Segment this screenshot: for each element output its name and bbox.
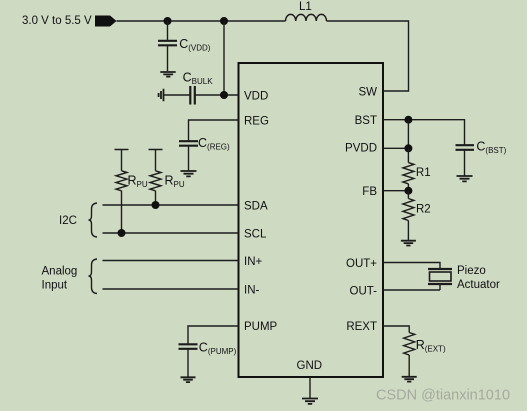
- svg-text:I2C: I2C: [59, 215, 77, 227]
- brace for I2C: [89, 203, 98, 237]
- piezo actuator: [428, 265, 500, 291]
- svg-text:Piezo: Piezo: [457, 265, 486, 277]
- svg-text:L1: L1: [299, 1, 312, 13]
- svg-text:VDD: VDD: [244, 91, 268, 103]
- wire: rail from L1 to SW drop: [327, 21, 409, 91]
- wire: IN- line: [103, 288, 239, 290]
- wire: BST line to C(BST): [383, 120, 465, 145]
- wire: SCL line: [103, 232, 239, 234]
- capacitor C(BST): [456, 140, 507, 176]
- svg-text:REXT: REXT: [346, 321, 377, 333]
- wire: SDA line: [103, 204, 239, 206]
- svg-text:IN+: IN+: [244, 256, 263, 268]
- svg-text:SW: SW: [358, 87, 377, 99]
- svg-text:R1: R1: [416, 167, 431, 179]
- node: rail / VDD branch junction: [220, 17, 228, 25]
- capacitor C(BULK): [164, 70, 239, 104]
- svg-text:REG: REG: [244, 116, 269, 128]
- svg-text:Input: Input: [42, 279, 68, 291]
- wire: piezo to OUT-: [383, 284, 440, 290]
- svg-text:PUMP: PUMP: [244, 321, 278, 333]
- node: FB junction: [404, 187, 412, 195]
- supply source terminal 3.0V-5.5V: [22, 15, 117, 27]
- ground under C(REG): [181, 171, 197, 176]
- svg-text:Actuator: Actuator: [457, 279, 500, 291]
- node: BST junction: [404, 116, 412, 124]
- svg-text:CSDN @tianxin1010: CSDN @tianxin1010: [376, 388, 510, 404]
- wire: IN+ line: [103, 260, 239, 262]
- node: rail / C(VDD) junction: [164, 17, 172, 25]
- wire: REXT pin to R(EXT): [383, 326, 409, 333]
- resistor RPU (SDA pull-up): [149, 150, 185, 206]
- svg-text:PVDD: PVDD: [345, 142, 377, 154]
- Analog Input label: [42, 265, 78, 291]
- svg-text:OUT-: OUT-: [350, 286, 378, 298]
- node: SDA / pull-up junction: [152, 201, 160, 209]
- inductor L1: [286, 1, 327, 21]
- ground under C(BST): [457, 176, 473, 181]
- wire: BST to PVDD: [407, 120, 409, 149]
- capacitor C(VDD): [158, 21, 211, 71]
- ground under R2: [401, 241, 416, 246]
- svg-text:3.0 V to 5.5 V: 3.0 V to 5.5 V: [22, 15, 92, 27]
- IC U1 body: [239, 63, 384, 377]
- capacitor C(REG): [179, 136, 230, 171]
- ground (sideways) at C(BULK): [159, 89, 164, 102]
- node: C(BULK)/VDD junction: [220, 91, 228, 99]
- brace for Analog Input: [89, 259, 98, 294]
- svg-text:R2: R2: [416, 203, 431, 215]
- wire: PUMP pin to C(PUMP): [188, 326, 239, 344]
- ground under C(PUMP): [181, 377, 196, 382]
- wire: OUT+ to piezo: [383, 263, 440, 270]
- ground under C(VDD): [160, 72, 175, 77]
- node: PVDD junction: [404, 144, 412, 152]
- wire: VDD branch down to VDD pin: [223, 21, 225, 95]
- node: SCL / pull-up junction: [118, 229, 126, 237]
- svg-text:BST: BST: [355, 115, 377, 127]
- wire: GND pin down: [309, 377, 311, 398]
- wire: REG pin to C(REG): [189, 120, 239, 141]
- wire: PVDD pin: [383, 147, 408, 149]
- wire: top rail from source to L1: [117, 20, 286, 22]
- resistor RPU (SCL pull-up): [115, 150, 148, 234]
- svg-text:FB: FB: [362, 186, 377, 198]
- ground under R(EXT): [402, 377, 417, 382]
- resistor R(EXT): [404, 333, 446, 377]
- resistor R1: [403, 148, 431, 190]
- svg-text:IN-: IN-: [244, 285, 260, 297]
- svg-text:Analog: Analog: [42, 265, 78, 277]
- svg-text:SCL: SCL: [244, 229, 267, 241]
- svg-text:OUT+: OUT+: [346, 258, 377, 270]
- capacitor C(PUMP): [179, 340, 237, 377]
- resistor R2: [403, 191, 431, 240]
- ground under GND: [302, 399, 318, 404]
- wire: FB pin: [383, 190, 408, 192]
- svg-text:SDA: SDA: [244, 201, 268, 213]
- svg-text:GND: GND: [297, 360, 323, 372]
